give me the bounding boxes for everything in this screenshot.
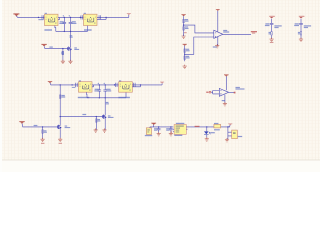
resistor body <box>183 19 185 22</box>
value label <box>222 100 225 101</box>
value label <box>78 97 90 98</box>
sheet background <box>0 0 320 172</box>
transistor Q4 <box>102 114 105 119</box>
junction <box>140 84 141 85</box>
capacitor plates <box>169 129 173 130</box>
capacitor (polarized, inline) <box>134 83 136 87</box>
component (switch) <box>232 130 243 139</box>
junction <box>99 84 100 85</box>
junction <box>62 48 63 49</box>
value label <box>294 25 299 26</box>
value label <box>223 31 229 32</box>
wire rail to Q1 drain <box>70 31 72 46</box>
value label <box>84 13 86 14</box>
junction <box>114 84 115 85</box>
ground under opamp <box>223 102 227 106</box>
wire node to opamp in+ <box>185 37 214 54</box>
cap polarity marks <box>63 15 105 84</box>
junction <box>184 54 185 55</box>
power flag EN2 <box>19 121 24 124</box>
value label <box>295 23 299 24</box>
net label <box>59 143 62 144</box>
power flag V+ <box>216 9 220 11</box>
wire U4 out <box>92 85 119 87</box>
value label <box>214 123 218 124</box>
regulator U1 <box>44 13 58 31</box>
value label <box>65 127 71 128</box>
op-amp U3B triangle <box>219 88 228 96</box>
LED D1 <box>206 127 208 139</box>
input tie wires <box>211 91 219 94</box>
wire node to component <box>228 127 232 139</box>
value label <box>61 52 63 53</box>
V- wire <box>217 37 219 46</box>
resistor body <box>62 51 64 54</box>
capacitor plates <box>69 22 73 23</box>
value label <box>108 117 114 118</box>
value label <box>59 23 64 24</box>
value label <box>298 32 300 33</box>
value label <box>269 32 271 33</box>
value label <box>45 13 47 14</box>
value label <box>98 120 101 121</box>
ground <box>183 65 187 69</box>
value label <box>34 125 38 126</box>
junction <box>70 17 71 18</box>
output stub <box>229 91 235 93</box>
capacitor C6 <box>104 85 106 98</box>
value label <box>98 119 101 120</box>
net label <box>252 33 255 34</box>
ground under opamp <box>215 44 219 48</box>
net label on gate wire <box>82 114 86 115</box>
value label <box>44 132 47 133</box>
red net label on wire <box>195 126 200 127</box>
wire VIN1 to U1 <box>16 16 44 17</box>
wire U6 out <box>186 126 230 128</box>
sheet bottom border <box>0 159 320 161</box>
value label <box>61 53 64 54</box>
LED D1 symbol <box>204 131 209 134</box>
capacitor plates <box>63 22 67 23</box>
value label <box>265 23 269 24</box>
wire Q3 source to ground <box>59 129 61 139</box>
power flag VCC <box>181 14 185 16</box>
power flag 3V3-1 <box>127 13 131 15</box>
regulator U5 <box>118 80 132 98</box>
ground <box>61 60 65 64</box>
value label <box>84 29 92 30</box>
opamp labels <box>223 30 227 31</box>
value label <box>119 80 121 81</box>
net label <box>41 143 44 144</box>
wire Q4 source to ground <box>104 119 106 130</box>
capacitor C1 (series bars at U1 input) <box>42 15 44 19</box>
capacitor C3 <box>70 17 72 31</box>
transistor Q3 <box>57 125 60 130</box>
value label <box>72 23 77 24</box>
value label <box>154 130 157 131</box>
value label <box>174 135 182 136</box>
capacitor plates <box>98 90 102 91</box>
ground A <box>270 38 274 42</box>
junction <box>158 126 159 127</box>
value label <box>44 29 52 30</box>
ground C8 <box>169 132 173 136</box>
resistor body <box>184 56 186 59</box>
resistor RA <box>271 32 273 35</box>
power flag VIN1 <box>13 13 19 16</box>
net label <box>184 32 187 33</box>
junction <box>170 126 171 127</box>
value label <box>38 19 43 20</box>
junction <box>105 17 106 18</box>
pins U6 <box>173 129 188 131</box>
C2 labels <box>60 21 64 22</box>
value label <box>106 103 109 104</box>
value label <box>185 19 188 20</box>
ground <box>68 60 72 64</box>
value label <box>186 50 190 51</box>
wire U5 out to flag <box>132 83 162 86</box>
value label <box>210 132 215 133</box>
power flag VBAT <box>151 123 156 125</box>
value label <box>106 90 111 91</box>
junction <box>99 97 100 98</box>
ground rail under U1/U2 <box>55 26 88 32</box>
capacitor CB <box>299 23 303 24</box>
divider R1/R2 <box>183 16 185 32</box>
junction <box>206 126 207 127</box>
junction <box>80 17 81 18</box>
junction <box>71 84 72 85</box>
value label <box>304 27 308 28</box>
wire Q3 drain up (junction) to gate wire of Q4 <box>60 117 103 125</box>
junction <box>96 116 97 117</box>
junction <box>114 84 115 85</box>
capacitor C5 <box>98 85 100 98</box>
value label <box>274 27 278 28</box>
resistor body <box>96 119 98 122</box>
power flag VCC2 <box>183 44 187 46</box>
value label <box>213 46 217 47</box>
value label <box>108 115 111 116</box>
ground B <box>299 38 303 42</box>
output net stub <box>234 92 236 94</box>
junction <box>60 84 61 85</box>
ground <box>58 138 62 142</box>
value label <box>186 57 190 58</box>
capacitor plates <box>157 129 161 130</box>
wire branch to Q3 drain <box>59 85 61 117</box>
left margin <box>0 0 2 172</box>
value label <box>269 33 272 34</box>
net label on drain wire <box>106 102 109 103</box>
junction <box>60 116 61 117</box>
divider R3/R4 <box>184 46 186 62</box>
value label <box>44 130 47 131</box>
value label <box>62 95 65 96</box>
opamp labels <box>236 87 240 88</box>
wire VIN2 to U4 <box>50 83 79 85</box>
capacitor to ground at gate <box>42 127 44 139</box>
junction dots <box>64 17 65 18</box>
C3 labels <box>72 21 76 22</box>
resistor body <box>42 130 44 133</box>
power flag B <box>299 15 305 18</box>
value label <box>185 28 189 29</box>
V+ wire <box>225 76 227 90</box>
ground <box>225 138 229 142</box>
junction <box>105 97 106 98</box>
op-amp U3A <box>214 11 251 46</box>
power flag EN1 <box>41 44 46 47</box>
value label <box>185 21 189 22</box>
ground LED <box>205 137 209 141</box>
value label <box>62 96 66 97</box>
net label <box>171 131 172 133</box>
value label <box>304 25 311 26</box>
capacitor bars at U5 input <box>115 83 117 87</box>
resistor body <box>184 49 186 52</box>
value label <box>185 26 188 27</box>
value label <box>72 87 76 88</box>
value label <box>74 47 77 48</box>
value label <box>238 136 242 137</box>
junction <box>64 31 65 32</box>
capacitor C8 <box>170 127 172 133</box>
wire J1 to U6 <box>150 125 173 128</box>
wire rail to Q4 drain <box>104 98 106 115</box>
value label <box>65 126 68 127</box>
wire EN1 to Q1 gate <box>44 46 68 48</box>
value label <box>118 97 129 98</box>
ground <box>94 128 98 132</box>
value label <box>74 49 79 50</box>
C6 labels <box>106 89 110 90</box>
value label <box>186 49 189 50</box>
junction <box>227 126 228 127</box>
regulator U2 <box>84 13 98 31</box>
capacitor plates <box>103 90 107 91</box>
capacitor C2 <box>63 17 65 31</box>
connector J1 <box>145 128 152 136</box>
value label <box>214 129 220 130</box>
value label <box>70 37 73 38</box>
value label <box>236 88 245 89</box>
wire node to opamp in- <box>184 25 214 33</box>
resistor R5 <box>214 123 221 130</box>
junction <box>42 126 43 127</box>
resistor body <box>183 27 185 30</box>
resistor body <box>59 95 61 98</box>
net label <box>270 42 274 43</box>
ground C7 <box>157 132 161 136</box>
value label <box>166 130 169 131</box>
IC U6 <box>171 123 187 136</box>
resistor pulldown at Q4 gate <box>95 117 97 130</box>
V- wire <box>224 95 226 104</box>
value label <box>265 25 270 26</box>
power flag VIN2 <box>48 81 52 83</box>
ground <box>102 128 106 132</box>
net port at inputs <box>209 91 211 93</box>
junction <box>183 24 184 25</box>
net label on drain wire <box>70 35 73 36</box>
wire U2 out to flag <box>97 15 129 20</box>
power flag A <box>269 15 275 18</box>
capacitor (polarized, inline) <box>99 15 101 19</box>
power flag V+2 <box>224 74 229 76</box>
resistor RB <box>300 32 302 35</box>
ground <box>41 138 45 142</box>
power flag 3V3-2 <box>160 82 164 84</box>
junction <box>105 84 106 85</box>
value label <box>154 128 157 129</box>
capacitor C4 (series bars at U2 input) <box>81 15 83 19</box>
wire U1 out <box>58 17 84 19</box>
V+ wire <box>217 11 219 32</box>
transistor Q1 <box>68 46 71 51</box>
output wire <box>223 33 251 35</box>
value label <box>79 80 81 81</box>
capacitor bars at U4 input <box>76 83 78 87</box>
value label <box>145 135 152 136</box>
net flag at opamp output <box>251 31 257 32</box>
value label <box>298 33 301 34</box>
wire EN2 to Q3 gate <box>22 124 58 127</box>
power flag at node <box>228 123 232 125</box>
junction <box>70 31 71 32</box>
junction dot <box>38 17 39 18</box>
value label <box>186 56 189 57</box>
resistor R pulldown <box>62 49 64 62</box>
value label <box>166 128 169 129</box>
value label <box>176 123 184 124</box>
capacitor CA <box>270 23 274 24</box>
wire Q1 source to ground <box>70 51 72 61</box>
ground <box>182 35 186 39</box>
net label <box>206 92 208 93</box>
capacitor C7 <box>158 127 160 133</box>
C5 labels <box>95 89 99 90</box>
value label <box>49 47 52 48</box>
value label <box>274 25 281 26</box>
value label <box>94 90 99 91</box>
regulator U4 <box>78 80 92 98</box>
ground rail under U4/U5 <box>87 92 126 98</box>
